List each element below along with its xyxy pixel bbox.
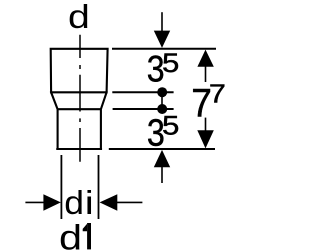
node line lower bbox=[113, 108, 174, 110]
arrow bottom up bbox=[154, 150, 170, 167]
label d1 digit 1 bbox=[87, 223, 91, 249]
arrow di right bbox=[100, 194, 118, 211]
svg-text:d: d bbox=[59, 218, 82, 250]
dimension line 35 connector bbox=[161, 88, 163, 114]
dot upper bbox=[157, 87, 167, 97]
svg-text:d: d bbox=[64, 185, 84, 222]
svg-text:5: 5 bbox=[162, 49, 179, 79]
dimension 77 arrow up bbox=[197, 50, 213, 67]
svg-text:i: i bbox=[85, 183, 94, 221]
centerline bbox=[79, 35, 81, 162]
svg-text:7: 7 bbox=[209, 79, 226, 109]
extension line top bbox=[112, 48, 216, 50]
fitting body outline bbox=[51, 49, 108, 149]
svg-text:d: d bbox=[68, 0, 90, 35]
dot lower bbox=[157, 104, 167, 114]
extension line di left bbox=[60, 155, 62, 219]
extension line di right bbox=[98, 155, 100, 219]
arrow di left bbox=[25, 201, 44, 203]
arrow top down bbox=[161, 12, 163, 32]
dimension 77 arrow down bbox=[205, 118, 207, 131]
node line upper bbox=[112, 91, 173, 93]
extension line bottom bbox=[109, 148, 215, 150]
svg-text:5: 5 bbox=[162, 110, 179, 141]
